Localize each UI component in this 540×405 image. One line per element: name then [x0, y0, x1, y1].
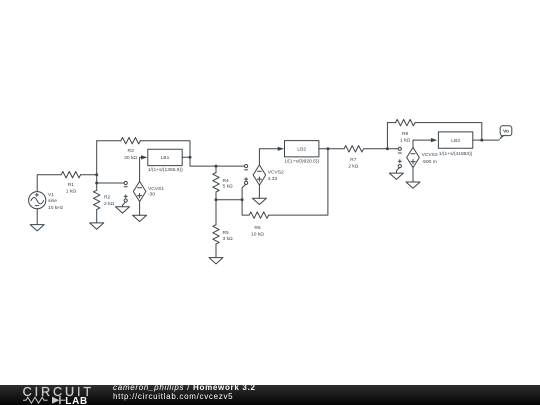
VCVS1 diamond [133, 181, 146, 201]
wire V1 bottom to ground [36, 209, 38, 225]
wire VCVS2 bottom to ground [258, 185, 260, 198]
wire R8 right down to node H [415, 123, 482, 141]
label R1 value [66, 182, 77, 194]
wire node G to VCVS3 minus terminal [387, 148, 398, 150]
wire node G up to R8 [387, 123, 395, 149]
Vo flag box [500, 126, 512, 136]
footer title text [113, 383, 256, 392]
footer url text [113, 392, 233, 401]
svg-text:VCVS1: VCVS1 [148, 186, 164, 192]
node E junction [241, 198, 244, 201]
svg-text:2 kΩ: 2 kΩ [348, 163, 359, 169]
wire node C to VCVS2 minus terminal [216, 165, 245, 167]
node A2 junction [95, 182, 98, 185]
wire node A2 to VCVS1 minus terminal [97, 182, 124, 184]
label LB1 [148, 155, 183, 173]
VCVS3 minus control terminal [398, 147, 401, 153]
svg-text:R6: R6 [254, 225, 261, 231]
wire node D to node E [216, 199, 242, 201]
ground under VCVS1 [133, 215, 147, 221]
ground under V1 [30, 225, 44, 231]
svg-text:1/(1+s/(9920.5)): 1/(1+s/(9920.5)) [284, 158, 319, 164]
svg-text:-500 m: -500 m [422, 159, 437, 165]
label R4 value [223, 178, 234, 190]
resistor R2 [94, 190, 100, 209]
LB3 input arrow [431, 138, 437, 142]
ground under R5 [209, 258, 223, 264]
VCVS3 diamond [407, 147, 420, 167]
node D junction [215, 198, 218, 201]
wire LB2 output to R7 [319, 148, 344, 150]
wire R2 bottom to ground [96, 210, 98, 223]
wire VCVS3 plus terminal to small ground [396, 168, 399, 174]
node B junction [189, 156, 192, 159]
svg-text:1 kΩ: 1 kΩ [400, 138, 411, 144]
label R2 value [104, 195, 115, 208]
svg-text:1/(1+s/(1365.9)): 1/(1+s/(1365.9)) [148, 167, 183, 173]
label VCVS2 value [268, 169, 284, 182]
svg-text:1/(1+s/(41883)): 1/(1+s/(41883)) [439, 151, 473, 157]
svg-text:-30: -30 [148, 191, 155, 197]
node A junction [95, 173, 98, 176]
svg-text:3 kΩ: 3 kΩ [223, 236, 234, 242]
small ground at VCVS3 plus [389, 173, 403, 179]
svg-text:LB3: LB3 [451, 138, 460, 144]
VCVS2 plus control terminal [245, 178, 248, 185]
ground under R2 [90, 223, 104, 229]
node H junction [480, 139, 483, 142]
Vo flag tail [499, 136, 505, 141]
wire VCVS1 top to LB1 arrow [140, 157, 142, 181]
wire LB3 output to Vo [473, 139, 499, 141]
VCVS2 diamond [253, 165, 266, 185]
resistor R3 [121, 138, 140, 144]
resistor R7 [344, 146, 363, 152]
svg-text:sine: sine [48, 198, 57, 204]
wire V1 top to R1 [37, 175, 61, 192]
svg-text:LB1: LB1 [161, 155, 170, 161]
svg-text:10 kΩ: 10 kΩ [251, 231, 264, 237]
svg-text:5 kΩ: 5 kΩ [223, 184, 234, 190]
wire VCVS2 plus terminal down to node E [242, 184, 246, 200]
wire R5 bottom to ground [215, 244, 217, 258]
svg-text:R4: R4 [223, 178, 230, 184]
label R5 value [223, 230, 234, 242]
wire VCVS2 top to LB2 arrow [259, 149, 278, 165]
resistor R1 [61, 172, 80, 178]
svg-text:LAB: LAB [65, 396, 88, 405]
svg-text:R3: R3 [127, 148, 134, 154]
resistor R6 [249, 212, 268, 218]
label R8 value [400, 131, 411, 144]
wire R3 branch top [97, 140, 121, 142]
wire VCVS1 bottom to ground [139, 202, 141, 216]
circuitlab logo [22, 385, 107, 405]
VCVS3 plus control terminal [398, 160, 401, 168]
svg-text:R5: R5 [223, 230, 230, 236]
wire node A vertical (R3 branch to R2 top) [96, 141, 98, 191]
node G junction [386, 147, 389, 150]
resistor R4 [213, 173, 219, 192]
svg-text:Vo: Vo [503, 129, 509, 135]
laplace block LB3 [438, 132, 472, 148]
VCVS2 minus control terminal [245, 165, 248, 170]
ground under VCVS2 [252, 198, 266, 204]
svg-text:LB2: LB2 [297, 146, 306, 152]
svg-text:10 kHz: 10 kHz [48, 205, 64, 211]
svg-text:4.33: 4.33 [268, 176, 278, 182]
wire R7 right to node G [364, 148, 388, 150]
svg-text:1 kΩ: 1 kΩ [66, 189, 77, 195]
wire VCVS1 plus terminal to small ground [123, 202, 126, 207]
VCVS1 plus control terminal [124, 195, 127, 202]
svg-text:VCVS3: VCVS3 [422, 152, 438, 158]
node F junction [326, 147, 329, 150]
VCVS1 minus control terminal [124, 181, 127, 186]
footer bar [0, 385, 540, 405]
laplace block LB1 [148, 149, 182, 165]
label R7 value [348, 157, 359, 170]
wire LB1 output to node B and down to node C [182, 157, 216, 166]
LB2 input arrow [278, 147, 284, 151]
node C junction [215, 165, 218, 168]
svg-text:V1: V1 [48, 192, 54, 198]
label R6 value [251, 225, 264, 237]
wire R6 right up to node F [269, 149, 328, 215]
wire VCVS3 bottom to ground [412, 168, 414, 182]
label LB3 [439, 138, 473, 157]
wire node E down to R6 [242, 200, 249, 215]
wire R1 to node A [81, 174, 97, 176]
ground under VCVS3 [406, 182, 420, 188]
label VCVS3 value [422, 152, 438, 165]
label V1 value [48, 192, 64, 211]
svg-text:R8: R8 [402, 131, 409, 137]
LB1 input arrow [141, 155, 147, 159]
svg-text:R2: R2 [104, 195, 111, 201]
svg-text:R1: R1 [68, 182, 75, 188]
label VCVS1 value [148, 186, 164, 198]
svg-text:R7: R7 [350, 157, 357, 163]
wire R3 right to node B [140, 141, 190, 158]
label R3 value [124, 148, 137, 161]
svg-text:2 kΩ: 2 kΩ [104, 201, 115, 207]
resistor R8 [396, 119, 415, 125]
laplace block LB2 [285, 141, 319, 157]
svg-text:30 kΩ: 30 kΩ [124, 155, 137, 161]
svg-text:VCVS2: VCVS2 [268, 169, 284, 175]
voltage source V1 [29, 192, 46, 209]
small ground at VCVS1 plus [116, 207, 130, 213]
label LB2 [284, 146, 319, 164]
resistor R5 [213, 225, 219, 244]
wire R4 bottom to node D [215, 192, 217, 200]
wire node C to R4 top [215, 166, 217, 173]
wire node D to R5 top [215, 200, 217, 225]
wire VCVS3 top to LB3 arrow [413, 140, 432, 147]
